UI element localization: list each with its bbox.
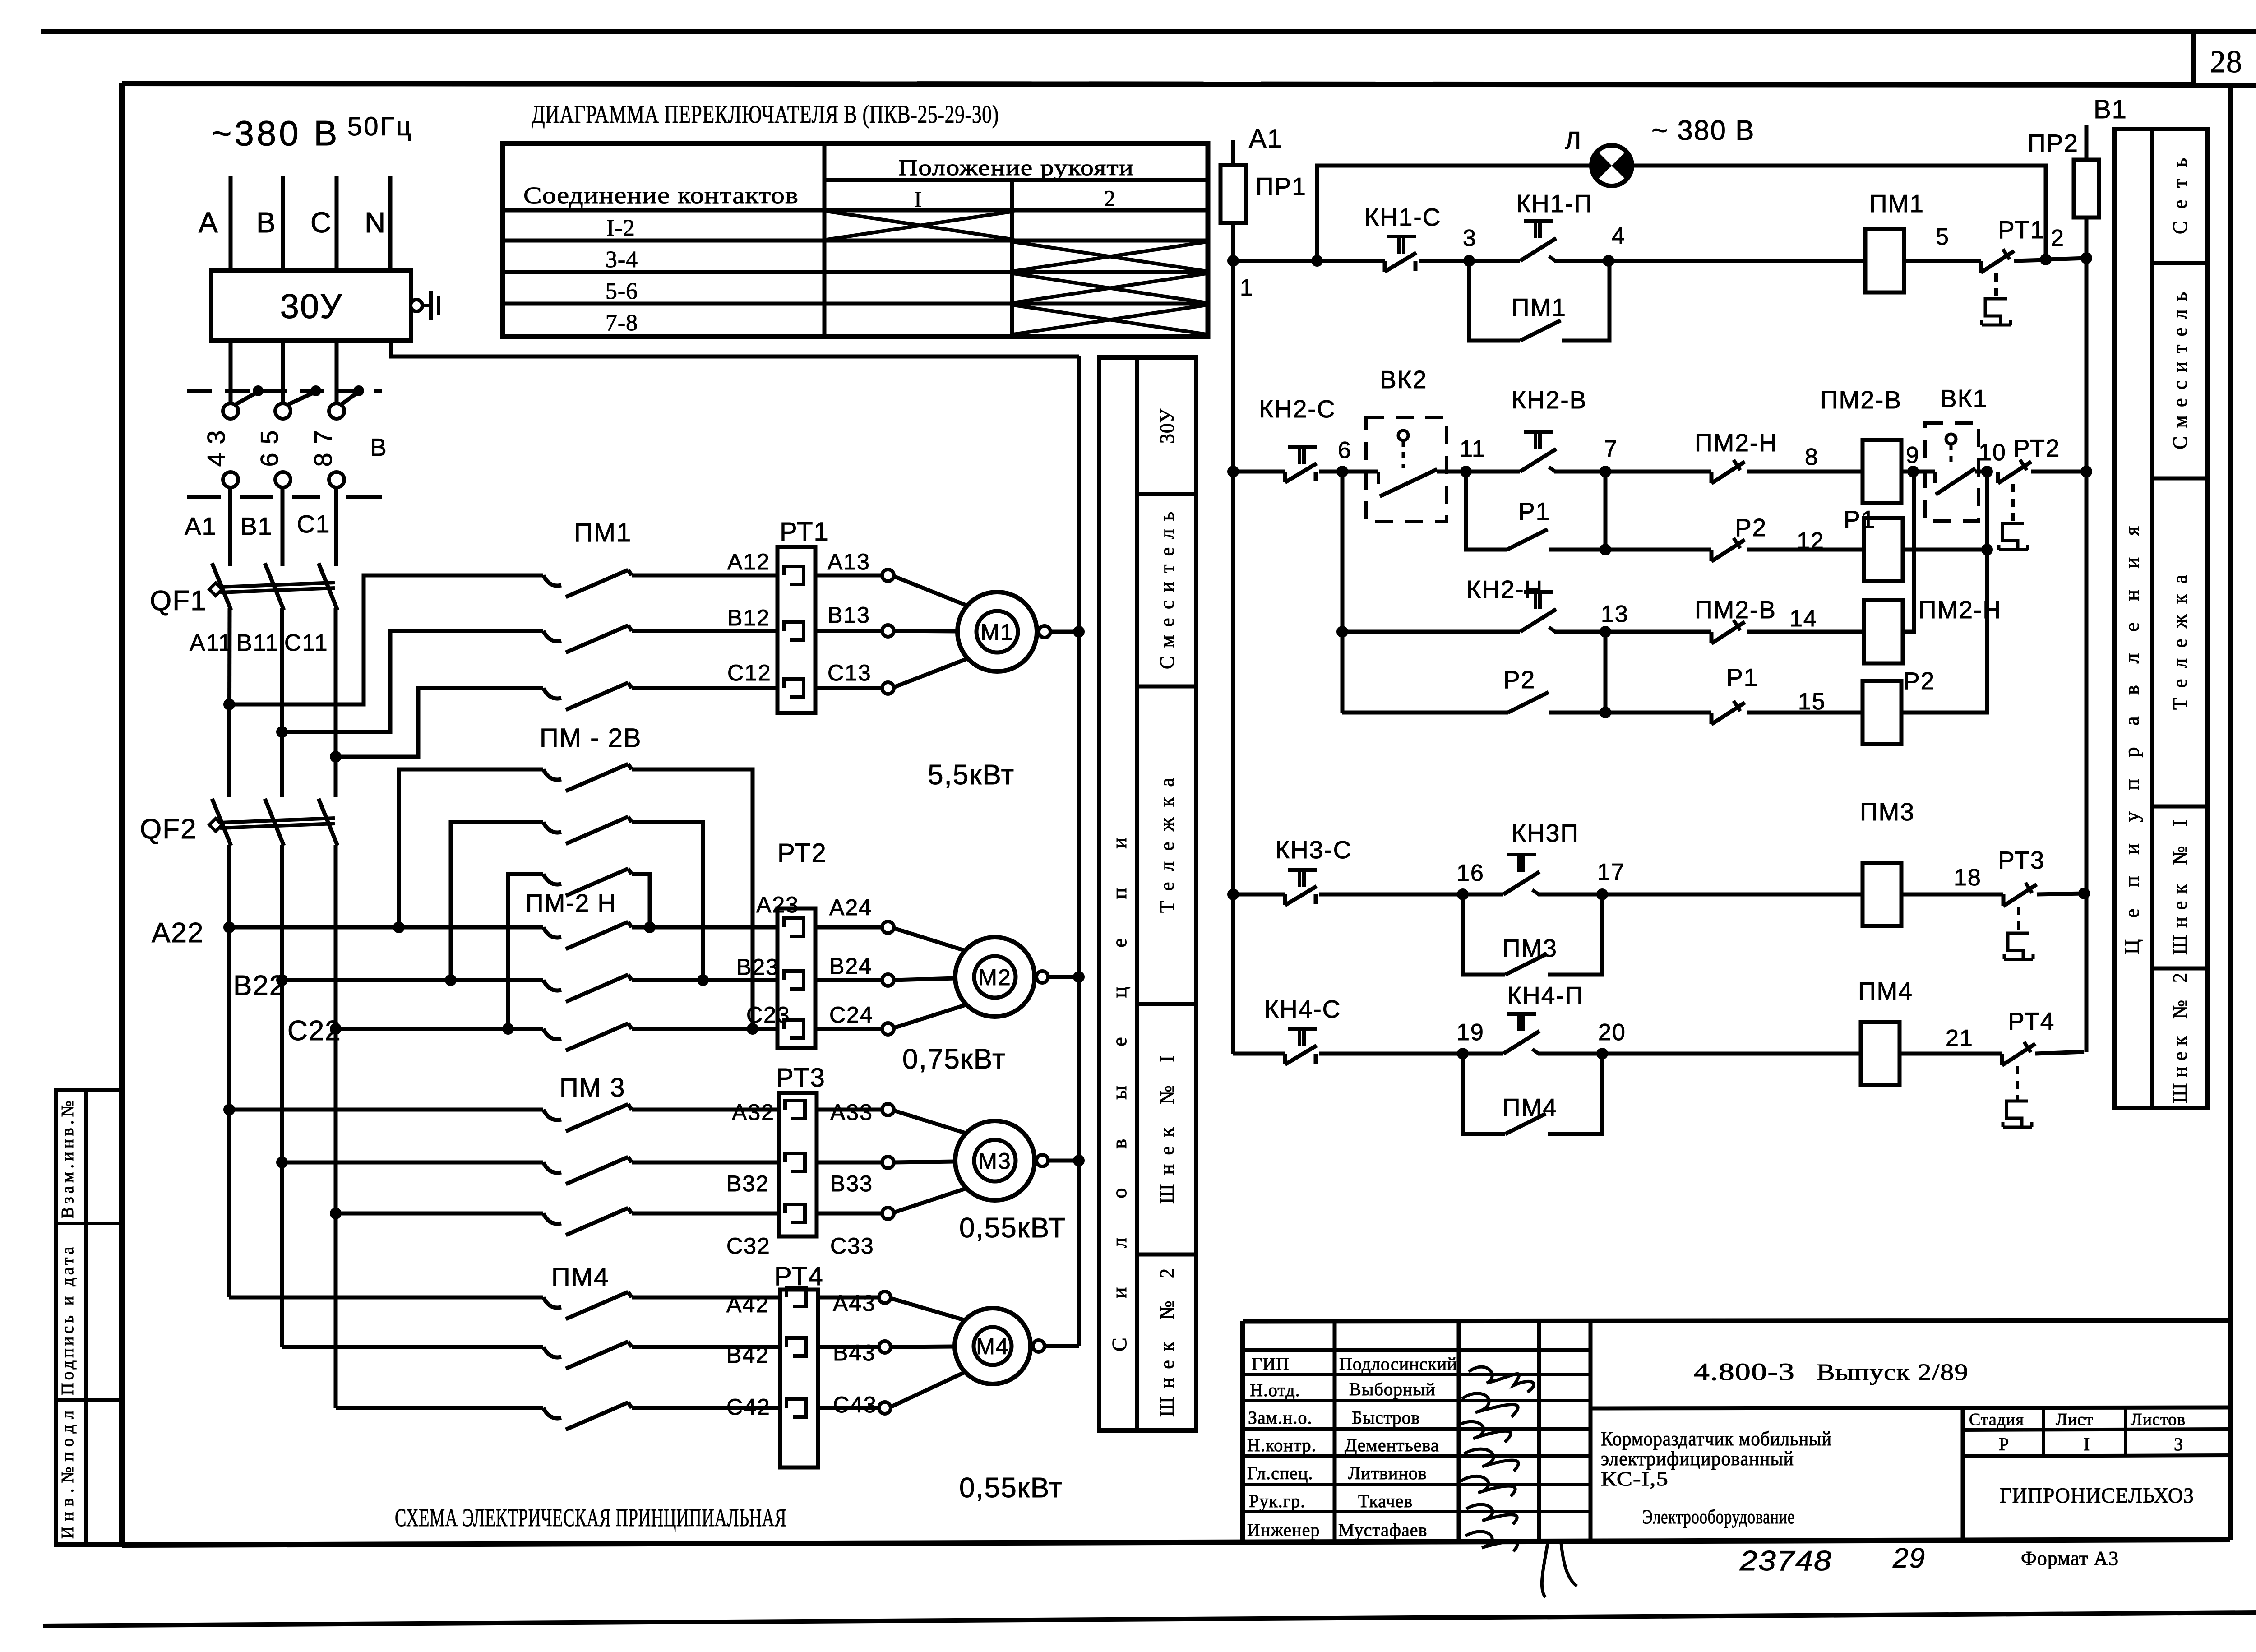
switch B terminal circles bottom: [223, 472, 238, 487]
svg-text:ПМ1: ПМ1: [1512, 293, 1567, 321]
phase line A middle: [228, 487, 232, 566]
wire row1 to coil: [1609, 259, 1865, 263]
contactor PM2-N contact C: [336, 1027, 543, 1031]
svg-text:В22: В22: [233, 970, 286, 1001]
svg-text:6 5: 6 5: [255, 430, 283, 467]
svg-text:QF2: QF2: [140, 814, 197, 845]
svg-text:Стадия: Стадия: [1969, 1410, 2024, 1429]
switch B blade B: [287, 392, 316, 405]
svg-text:15: 15: [1798, 689, 1826, 715]
aux NC contact P2 in P1 row: [1710, 550, 1714, 561]
svg-text:С13: С13: [828, 660, 872, 685]
relay coil P2: [1863, 681, 1901, 744]
svg-text:С42: С42: [726, 1394, 771, 1420]
svg-text:2: 2: [1104, 185, 1116, 211]
svg-text:N: N: [365, 206, 386, 239]
svg-text:В13: В13: [828, 602, 870, 628]
svg-text:1: 1: [1240, 275, 1254, 301]
svg-text:М1: М1: [980, 620, 1013, 645]
node 6: [1336, 466, 1348, 477]
svg-text:Лист: Лист: [2056, 1410, 2094, 1429]
contactor coil PM4: [1861, 1022, 1900, 1085]
svg-text:С23: С23: [746, 1002, 791, 1027]
node 20: [1596, 1048, 1608, 1060]
svg-text:Мустафаев: Мустафаев: [1338, 1520, 1427, 1540]
svg-text:10: 10: [1979, 440, 2006, 466]
node bus M1: [1073, 626, 1085, 638]
wires RT1 to motor M1: [815, 574, 882, 578]
svg-text:I-2: I-2: [606, 215, 635, 241]
thermal contact RT2: [1996, 472, 2000, 483]
cross mark position 2 contacts 5-6: [1013, 273, 1207, 303]
contactor coil PM3: [1863, 863, 1901, 926]
phase line B middle: [281, 487, 285, 566]
cross mark position 1 contacts 1-2: [827, 211, 1014, 240]
contactor PM4 contact C: [336, 1406, 543, 1410]
svg-text:СХЕМА ЭЛЕКТРИЧЕСКАЯ ПРИНЦИПИАЛ: СХЕМА ЭЛЕКТРИЧЕСКАЯ ПРИНЦИПИАЛЬНАЯ: [395, 1504, 786, 1532]
node7 drop: [1604, 472, 1608, 550]
drawing frame: [122, 83, 2194, 85]
svg-text:I: I: [914, 186, 922, 212]
svg-text:С32: С32: [726, 1233, 771, 1259]
start button KN2-V: [1520, 449, 1556, 472]
aux NC contact P1 in P2 row: [1710, 713, 1714, 724]
control circuits legend column: [2114, 129, 2208, 1108]
motor M4: [955, 1308, 1031, 1384]
svg-text:А22: А22: [152, 917, 204, 949]
node row3 rail: [1227, 888, 1239, 900]
control left rail: [1231, 140, 1235, 1054]
wire row4 left: [1233, 1052, 1285, 1056]
aux NC contact PM2-V: [1710, 632, 1714, 643]
wire A to PM1 contact: [229, 575, 543, 704]
svg-text:A: A: [199, 206, 219, 239]
contactor PM1 contact B: [543, 631, 561, 641]
wires RT3 to motor M3: [817, 1108, 882, 1112]
motor M3: [955, 1121, 1035, 1200]
svg-text:Р2: Р2: [1903, 667, 1935, 695]
svg-text:~380 В: ~380 В: [211, 113, 340, 153]
contactor PM1 contact C: [543, 688, 561, 699]
svg-text:А43: А43: [833, 1291, 876, 1316]
stop button KN4-S: [1283, 1054, 1287, 1064]
svg-text:Кормораздатчик мобильный: Кормораздатчик мобильный: [1601, 1428, 1832, 1450]
svg-text:4: 4: [1612, 223, 1626, 249]
svg-text:С1: С1: [297, 510, 330, 538]
svg-text:РТ4: РТ4: [2008, 1007, 2055, 1035]
svg-text:ПМ1: ПМ1: [574, 518, 632, 547]
svg-text:18: 18: [1954, 865, 1982, 891]
contactor PM4 contact B: [282, 1345, 543, 1349]
node C on line C: [330, 751, 342, 763]
svg-text:Р2: Р2: [1503, 666, 1535, 694]
contactor PM2-V contact C: [508, 874, 543, 1029]
svg-text:0,55кВТ: 0,55кВТ: [959, 1212, 1066, 1244]
svg-text:Электрооборудование: Электрооборудование: [1642, 1506, 1795, 1528]
svg-text:РТ1: РТ1: [780, 517, 829, 546]
start button KN1-P: [1520, 238, 1556, 261]
svg-text:С: С: [310, 206, 332, 239]
wire row KN2-N to PM2-V contact: [1605, 630, 1711, 634]
svg-text:Р2: Р2: [1735, 514, 1767, 541]
contactor coil PM1: [1865, 229, 1904, 292]
reverse button row KN2-N: [1341, 472, 1345, 713]
phase line C middle: [334, 487, 338, 566]
contactor PM2-V contact B: [451, 822, 543, 980]
fuse PR1: [1220, 165, 1246, 223]
wires RT4 to motor M4: [818, 1296, 879, 1300]
neutral wire from 30U to bus: [391, 341, 1079, 356]
contactor PM2-N contact B: [282, 978, 543, 982]
wire row2 left: [1233, 470, 1285, 474]
svg-text:Листов: Листов: [2131, 1410, 2186, 1429]
svg-text:А33: А33: [830, 1100, 873, 1125]
svg-text:17: 17: [1597, 859, 1625, 885]
svg-text:ПМ1: ПМ1: [1869, 190, 1924, 217]
svg-text:А23: А23: [756, 892, 799, 917]
node A22: [223, 921, 235, 933]
svg-text:21: 21: [1946, 1025, 1974, 1051]
node A-PM3: [223, 1104, 235, 1115]
svg-text:28: 28: [2210, 45, 2242, 79]
svg-text:3-4: 3-4: [606, 247, 638, 273]
svg-text:QF1: QF1: [150, 585, 207, 616]
protection unit 30U box: [211, 270, 411, 341]
svg-text:I: I: [2084, 1434, 2090, 1454]
svg-text:Р1: Р1: [1726, 663, 1758, 691]
svg-text:Ткачев: Ткачев: [1358, 1491, 1413, 1511]
svg-text:8 7: 8 7: [309, 430, 337, 467]
wire row4 to coil: [1602, 1052, 1861, 1056]
svg-text:В1: В1: [2094, 95, 2127, 124]
svg-text:3: 3: [1463, 225, 1477, 251]
wires from 30U to switch B: [229, 341, 233, 403]
thermal contact RT3: [2002, 894, 2006, 906]
svg-text:14: 14: [1789, 606, 1817, 632]
svg-text:8: 8: [1805, 444, 1819, 470]
svg-text:19: 19: [1456, 1019, 1484, 1046]
svg-text:ПМ4: ПМ4: [1502, 1093, 1558, 1121]
node B-PM3: [276, 1157, 288, 1168]
svg-text:16: 16: [1456, 860, 1484, 886]
svg-text:50Гц: 50Гц: [347, 112, 413, 141]
svg-text:электрифицированный: электрифицированный: [1601, 1448, 1794, 1470]
PM1 aux bypass contact: [1469, 261, 1520, 341]
svg-text:ПМ4: ПМ4: [1858, 977, 1913, 1005]
svg-text:ВК1: ВК1: [1940, 384, 1988, 412]
svg-text:С11: С11: [284, 630, 328, 656]
svg-text:~ 380 В: ~ 380 В: [1651, 115, 1755, 146]
svg-text:Инженер: Инженер: [1247, 1520, 1320, 1540]
svg-text:13: 13: [1601, 601, 1629, 627]
node 4: [1603, 255, 1614, 267]
switch diagram table: [503, 143, 1208, 337]
neutral line N top: [388, 176, 393, 270]
node C22: [330, 1023, 342, 1035]
svg-text:ПМ2-В: ПМ2-В: [1695, 596, 1776, 624]
svg-text:А1: А1: [185, 512, 217, 540]
node10 drop junction: [1985, 472, 1989, 550]
switch B blade A: [234, 392, 258, 405]
svg-text:4 3: 4 3: [202, 430, 230, 467]
svg-text:11: 11: [1460, 436, 1486, 462]
svg-text:КС-I,5: КС-I,5: [1601, 1468, 1669, 1490]
svg-text:5: 5: [1936, 224, 1950, 250]
contactor coil PM2-V: [1863, 440, 1901, 503]
node 17: [1596, 888, 1608, 900]
lamp riser wire: [1317, 166, 1591, 261]
svg-text:Р: Р: [1999, 1434, 2009, 1454]
svg-text:Р1: Р1: [1844, 505, 1876, 533]
svg-text:Подпись и дата: Подпись и дата: [58, 1246, 77, 1395]
svg-text:КН1-П: КН1-П: [1516, 190, 1593, 217]
node 9: [1907, 466, 1919, 477]
svg-text:ПР2: ПР2: [2028, 129, 2079, 157]
svg-text:А13: А13: [828, 549, 870, 574]
node 19: [1457, 1048, 1469, 1060]
node A on line A: [223, 699, 235, 710]
signatures: [1469, 1367, 1534, 1392]
svg-text:А32: А32: [732, 1100, 775, 1125]
svg-text:Быстров: Быстров: [1352, 1407, 1420, 1428]
svg-text:ПМ4: ПМ4: [551, 1263, 609, 1292]
node C-PM3: [330, 1208, 342, 1219]
svg-text:В11: В11: [236, 630, 279, 656]
node on B1 rail row2: [2080, 466, 2092, 477]
packet switch B linkage: [187, 389, 382, 393]
svg-text:ПМ3: ПМ3: [1502, 934, 1558, 962]
ground terminal of 30U: [411, 300, 422, 311]
svg-text:В23: В23: [736, 954, 779, 980]
phase line C top: [335, 176, 339, 270]
svg-text:ПМ3: ПМ3: [1860, 798, 1915, 826]
svg-text:В32: В32: [726, 1171, 769, 1196]
svg-text:А11: А11: [190, 630, 232, 656]
svg-text:Смеситель: Смеситель: [1156, 511, 1178, 669]
phase line A top: [229, 176, 233, 270]
contactor coil PM2-N: [1864, 600, 1903, 663]
svg-text:6: 6: [1338, 437, 1352, 463]
limit switch VK2: [1366, 417, 1447, 522]
switch B blade C: [340, 392, 359, 405]
contactor PM3 contact B: [282, 1161, 543, 1165]
svg-text:7-8: 7-8: [606, 310, 638, 336]
wire to P1 contact: [1605, 711, 1711, 715]
svg-text:9: 9: [1906, 442, 1920, 468]
svg-text:А24: А24: [829, 895, 872, 920]
wire B to PM1 contact: [282, 631, 543, 732]
svg-text:ПМ-2 Н: ПМ-2 Н: [526, 889, 616, 917]
limit switch VK1: [1925, 423, 1979, 521]
node B22: [276, 974, 288, 986]
relay coil P1: [1864, 518, 1903, 581]
svg-text:Смеситель: Смеситель: [2169, 292, 2191, 449]
cross mark position 2 contacts 7-8: [1013, 305, 1207, 334]
svg-text:В43: В43: [833, 1340, 876, 1365]
node row1 rail: [1227, 255, 1239, 267]
motor M1: [957, 592, 1037, 671]
svg-text:В12: В12: [727, 605, 770, 630]
stop button KN3-S: [1283, 894, 1287, 905]
svg-text:А12: А12: [727, 549, 770, 574]
svg-text:КН2-С: КН2-С: [1259, 395, 1336, 423]
contactor PM3 contact A: [229, 1108, 543, 1112]
svg-text:3: 3: [2174, 1434, 2183, 1454]
svg-text:ПМ - 2В: ПМ - 2В: [540, 723, 642, 753]
svg-text:ПМ2-Н: ПМ2-Н: [1695, 429, 1778, 457]
PM3 aux bypass contact: [1463, 894, 1505, 975]
node bus M3: [1073, 1155, 1085, 1166]
svg-text:2: 2: [2051, 225, 2065, 251]
svg-text:ВК2: ВК2: [1380, 366, 1427, 393]
contactor PM2-N contact A: [229, 925, 543, 930]
svg-text:А42: А42: [726, 1292, 769, 1317]
wire row1 left: [1233, 259, 1385, 263]
node13 drop: [1604, 632, 1608, 713]
svg-text:Н.отд.: Н.отд.: [1250, 1380, 1300, 1400]
node B on line B: [276, 726, 288, 738]
sheet top border line: [41, 29, 2256, 34]
svg-text:КН4-С: КН4-С: [1264, 995, 1341, 1023]
wire C to PM1 contact: [336, 688, 543, 757]
control right rail B1: [2085, 125, 2089, 1052]
svg-text:ПМ 3: ПМ 3: [559, 1073, 625, 1102]
svg-text:0,55кВт: 0,55кВт: [959, 1472, 1063, 1504]
svg-text:ГИП: ГИП: [1252, 1354, 1290, 1374]
svg-text:КН4-П: КН4-П: [1507, 981, 1584, 1009]
lamp branch node: [1311, 255, 1323, 267]
thermal contact RT1: [1979, 261, 1983, 273]
svg-text:30У: 30У: [1156, 408, 1178, 444]
svg-text:РТ2: РТ2: [777, 838, 827, 868]
svg-text:Инв.№подл: Инв.№подл: [58, 1410, 77, 1539]
svg-text:Соединение контактов: Соединение контактов: [523, 183, 799, 208]
svg-text:С24: С24: [829, 1002, 874, 1027]
node on B1 rail row3: [2078, 888, 2090, 899]
svg-text:В: В: [256, 206, 277, 239]
svg-text:В42: В42: [726, 1342, 769, 1368]
stop button KN1-S: [1383, 261, 1387, 272]
title block frame: [1243, 1320, 2230, 1321]
wires RT2 to motor M2: [815, 925, 882, 930]
svg-text:5,5кВт: 5,5кВт: [928, 759, 1015, 791]
svg-text:В33: В33: [830, 1171, 873, 1196]
node 10: [1981, 466, 1993, 477]
svg-text:КН3П: КН3П: [1512, 819, 1579, 847]
svg-text:Шнек № 2: Шнек № 2: [2169, 972, 2191, 1103]
svg-text:М4: М4: [976, 1334, 1009, 1359]
svg-text:Н.контр.: Н.контр.: [1247, 1435, 1317, 1455]
svg-text:КН2-В: КН2-В: [1512, 386, 1587, 414]
svg-text:РТ2: РТ2: [2013, 434, 2060, 462]
svg-text:Литвинов: Литвинов: [1348, 1463, 1427, 1483]
node 11: [1460, 466, 1472, 477]
svg-text:Выборный: Выборный: [1349, 1379, 1436, 1399]
start button KN4-P: [1503, 1031, 1539, 1054]
node bus M2: [1073, 971, 1085, 983]
svg-text:30У: 30У: [280, 287, 343, 326]
svg-text:ПМ2-В: ПМ2-В: [1820, 386, 1902, 414]
document stamp strip: [56, 1090, 122, 1545]
P2 coil output riser: [1901, 550, 1987, 713]
node row2 rail: [1227, 466, 1239, 477]
contactor PM4 contact A: [229, 1296, 543, 1300]
thermal contact RT4: [2000, 1054, 2004, 1065]
svg-text:КН2-Н: КН2-Н: [1466, 575, 1543, 603]
svg-text:ГИПРОНИСЕЛЬХОЗ: ГИПРОНИСЕЛЬХОЗ: [2000, 1484, 2194, 1508]
relay P1 bypass row: [1466, 472, 1507, 550]
svg-text:Формат А3: Формат А3: [2021, 1547, 2119, 1569]
svg-text:ПР1: ПР1: [1256, 172, 1307, 200]
node before PR2: [2040, 254, 2052, 265]
svg-text:29: 29: [1892, 1543, 1926, 1574]
phase line B top: [281, 176, 285, 270]
svg-text:В1: В1: [240, 512, 273, 540]
wire row3 to coil: [1602, 893, 1863, 897]
wire row2 to PM2-N contact: [1605, 470, 1711, 474]
contactor PM3 contact C: [336, 1212, 543, 1216]
svg-text:КН1-С: КН1-С: [1364, 203, 1441, 231]
PM4 aux bypass contact: [1463, 1054, 1505, 1134]
node 3: [1463, 255, 1475, 267]
motor M2: [955, 937, 1035, 1017]
start button KN3P: [1503, 872, 1539, 894]
svg-text:20: 20: [1598, 1019, 1626, 1046]
svg-text:С12: С12: [727, 660, 772, 685]
PM2-N coil output to node9: [1903, 472, 1914, 632]
svg-text:4.800-3: 4.800-3: [1694, 1358, 1795, 1385]
relay P2 bypass row: [1342, 711, 1508, 715]
svg-text:Рук.гр.: Рук.гр.: [1249, 1491, 1305, 1511]
node 13: [1600, 626, 1611, 638]
switch B terminal circles top: [223, 403, 238, 419]
svg-text:РТ1: РТ1: [1998, 216, 2045, 244]
fuse PR2: [2074, 160, 2099, 217]
node on B1 rail row1: [2080, 252, 2092, 264]
svg-text:В24: В24: [829, 953, 872, 979]
svg-text:Положение рукояти: Положение рукояти: [898, 155, 1134, 180]
motor bus vertical: [1077, 356, 1081, 1346]
svg-text:С33: С33: [830, 1233, 874, 1259]
sheet number box 28: [2191, 32, 2196, 86]
svg-text:РТ3: РТ3: [776, 1063, 826, 1092]
svg-text:Л: Л: [1565, 126, 1582, 154]
sheet bottom border line: [43, 1613, 2256, 1626]
svg-text:0,75кВт: 0,75кВт: [902, 1044, 1006, 1075]
svg-text:Зам.н.о.: Зам.н.о.: [1248, 1407, 1313, 1428]
svg-text:КН3-С: КН3-С: [1275, 836, 1352, 864]
svg-text:ДИАГРАММА ПЕРЕКЛЮЧАТЕЛЯ В (ПКВ: ДИАГРАММА ПЕРЕКЛЮЧАТЕЛЯ В (ПКВ-25-29-30): [532, 101, 999, 129]
node 7: [1600, 466, 1611, 477]
svg-text:5-6: 5-6: [606, 278, 638, 304]
cross mark position 2 contacts 3-4: [1013, 242, 1207, 271]
power circuits legend column: [1099, 357, 1196, 1430]
lamp wire to PR2: [1632, 166, 2046, 259]
svg-text:12: 12: [1797, 528, 1825, 554]
wire to P2 contact: [1605, 548, 1711, 552]
contactor PM2-V contact A: [399, 769, 543, 927]
svg-text:М2: М2: [978, 965, 1011, 990]
terminal dashes: [187, 495, 221, 499]
aux NC contact PM2-N in row2: [1710, 472, 1714, 483]
svg-text:Р1: Р1: [1518, 497, 1550, 525]
svg-text:В: В: [370, 433, 388, 461]
wire row3 left: [1233, 893, 1285, 897]
start button KN2-N: [1520, 609, 1556, 632]
svg-text:23748: 23748: [1739, 1546, 1832, 1577]
svg-text:С43: С43: [833, 1392, 877, 1417]
svg-text:Гл.спец.: Гл.спец.: [1247, 1463, 1313, 1483]
